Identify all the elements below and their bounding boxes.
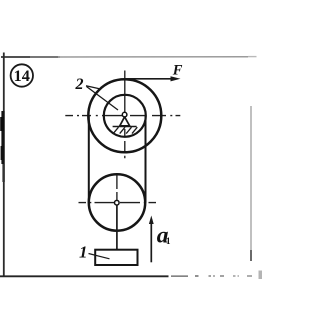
svg-text:14: 14 xyxy=(14,66,30,85)
svg-text:2: 2 xyxy=(75,76,84,93)
svg-text:1: 1 xyxy=(166,236,171,246)
svg-text:F: F xyxy=(172,63,183,79)
svg-text:1: 1 xyxy=(79,242,88,261)
